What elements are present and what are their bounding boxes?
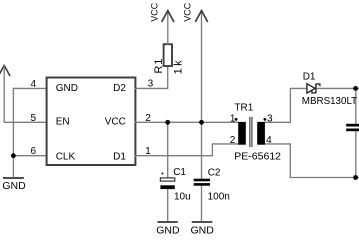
svg-text:EN: EN (56, 117, 70, 128)
svg-text:6: 6 (31, 146, 37, 157)
wire gnd bus (12, 122, 14, 177)
wire C2 tap (201, 122, 203, 178)
wire output bottom stub (356, 177, 359, 179)
transformer TR1 phase dot pin1 (235, 118, 238, 121)
diode D1 (Schottky) (307, 84, 320, 93)
wire pin2 VCC net (135, 121, 238, 123)
svg-text:D1: D1 (113, 151, 126, 162)
svg-text:2: 2 (145, 113, 151, 124)
power VCC arrow 2 line (201, 11, 203, 123)
svg-text:VCC: VCC (182, 2, 192, 21)
wire output cap bottom (355, 131, 357, 177)
svg-text:TR1: TR1 (234, 103, 253, 114)
wire R1 top to VCC (167, 11, 169, 45)
junction dot C2/VCC tap (199, 120, 204, 125)
ground GND left (4, 177, 23, 179)
power VCC arrow 2 (196, 11, 208, 22)
svg-text:3: 3 (267, 113, 273, 124)
svg-text:100n: 100n (208, 191, 230, 202)
wire TR1 pin3 to D1 anode (265, 88, 307, 122)
IC body (GND/EN/CLK/D2/VCC/D1) (47, 78, 136, 166)
power VCC arrow 1 (162, 11, 174, 22)
junction dot pin6/gnd (11, 153, 16, 158)
svg-text:10u: 10u (174, 191, 191, 202)
svg-text:VCC: VCC (149, 2, 159, 21)
svg-text:PE-65612: PE-65612 (234, 151, 281, 163)
junction dot output bottom (353, 175, 358, 180)
svg-text:1k: 1k (173, 58, 185, 74)
svg-text:MBRS130LT: MBRS130LT (302, 96, 357, 107)
svg-text:GND: GND (56, 83, 78, 94)
svg-text:2: 2 (230, 135, 236, 146)
capacitor C3 output plate top (346, 124, 359, 127)
capacitor C3 output plate bottom (346, 129, 359, 132)
wire D1 cathode to output (317, 87, 359, 89)
svg-text:3: 3 (148, 78, 154, 89)
svg-text:D2: D2 (113, 83, 126, 94)
svg-text:4: 4 (266, 135, 272, 146)
wire C1 bottom to ground (167, 189, 169, 221)
wire pin6 CLK (13, 155, 46, 157)
wire C2 bottom to ground (201, 186, 203, 222)
transformer TR1 winding bar left (238, 122, 246, 145)
resistor R1 (164, 44, 172, 66)
capacitor C1 plate bottom (160, 185, 174, 189)
svg-text:CLK: CLK (56, 151, 76, 162)
svg-text:4: 4 (31, 79, 37, 90)
wire output cap top (355, 88, 357, 123)
wire C1 tap (167, 122, 169, 178)
svg-text:GND: GND (2, 180, 26, 192)
svg-text:R1: R1 (153, 58, 165, 74)
svg-text:5: 5 (31, 113, 37, 124)
node EN off-page arrow (0, 65, 10, 122)
capacitor C1 plate top (polarized) (160, 178, 174, 181)
wire pin5 EN (4, 121, 46, 123)
transformer TR1 winding bar right (257, 122, 265, 145)
svg-text:GND: GND (191, 225, 215, 237)
ground GND under C2 (193, 221, 212, 223)
svg-text:1: 1 (230, 113, 236, 124)
wire pin3 D2 to R1 (135, 67, 168, 88)
wire TR1 pin4 to bottom (265, 144, 356, 178)
svg-text:1: 1 (145, 146, 151, 157)
junction dot D1 cathode / cap (353, 86, 358, 91)
svg-text:+: + (161, 171, 165, 178)
wire pin4 GND (13, 88, 46, 122)
transformer TR1 core lines (250, 117, 252, 147)
wire pin1 D1 to TR1 pin2 (135, 144, 238, 156)
capacitor C2 plate top (194, 179, 210, 182)
capacitor C2 plate bottom (194, 183, 210, 186)
svg-text:VCC: VCC (105, 117, 126, 128)
transformer TR1 phase dot pin3 (264, 118, 267, 121)
svg-text:D1: D1 (303, 72, 316, 83)
svg-text:GND: GND (156, 225, 180, 237)
junction dot C1 tap (165, 120, 170, 125)
svg-text:C1: C1 (173, 167, 186, 178)
ground GND under C1 (159, 221, 177, 223)
svg-text:C2: C2 (208, 167, 221, 178)
